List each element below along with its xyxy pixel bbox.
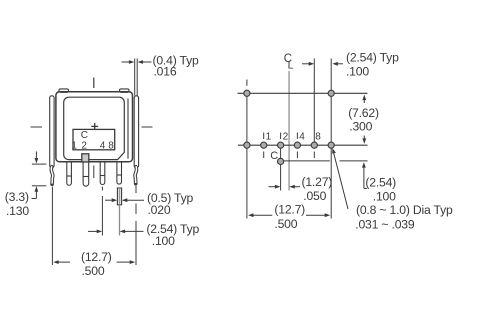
pin B	[67, 162, 72, 186]
svg-text:1: 1	[266, 132, 272, 143]
svg-text:.016: .016	[154, 64, 177, 78]
dim (0.5) right arrow	[122, 198, 144, 202]
pin F (wavy right)	[135, 167, 137, 184]
dim (12.7) right figure right arrow	[306, 213, 330, 217]
pin E	[117, 162, 122, 184]
svg-text:.500: .500	[82, 264, 105, 278]
svg-text:2: 2	[283, 132, 289, 143]
dim text (1.27) .050	[302, 175, 333, 203]
dim text (0.8 ~ 1.0) Dia Typ .031 ~ .039	[355, 203, 453, 231]
column line 1	[246, 80, 248, 219]
dia leader arrow	[332, 148, 348, 209]
dim (3.3) down arrow	[35, 152, 39, 164]
top-left mounting bump	[59, 89, 69, 92]
dim (7.62) down arrow	[362, 136, 366, 144]
svg-text:(12.7): (12.7)	[81, 250, 112, 264]
dim (12.7) left arrow	[53, 260, 70, 264]
right side rail	[134, 96, 138, 168]
plus centermark	[91, 123, 98, 130]
middle row pin I2	[278, 142, 284, 148]
pin labels 1 2 4 8	[266, 132, 322, 143]
svg-text:8: 8	[108, 140, 114, 151]
svg-text:.100: .100	[346, 65, 369, 79]
inner window with chamfered corner	[64, 97, 125, 159]
svg-text:(2.54): (2.54)	[365, 176, 396, 190]
dim (0.5) left arrow	[105, 198, 117, 202]
pin D extension dashes	[101, 187, 103, 236]
dim text (7.62) .300	[348, 106, 379, 133]
svg-text:4: 4	[100, 140, 106, 151]
dim (3.3) up arrow	[32, 186, 39, 198]
svg-text:(2.54) Typ: (2.54) Typ	[346, 51, 399, 65]
column 4 ticks	[296, 133, 298, 159]
dim (2.54) left arrow	[88, 230, 102, 234]
top-right mounting bump	[120, 89, 130, 92]
svg-text:(1.27): (1.27)	[302, 175, 333, 189]
svg-text:4: 4	[299, 132, 305, 143]
svg-text:(3.3): (3.3)	[5, 190, 29, 204]
svg-text:(0.8 ~ 1.0) Dia Typ: (0.8 ~ 1.0) Dia Typ	[356, 203, 453, 217]
dim (12.7) right arrow	[117, 260, 136, 264]
pin F core	[135, 166, 137, 183]
horizontal centerline dash right	[142, 126, 153, 128]
centerline symbol CL	[284, 53, 294, 71]
middle row pin I4	[294, 142, 300, 148]
dim text (12.7) .500 right figure	[274, 202, 305, 231]
svg-text:.300: .300	[349, 119, 372, 133]
top row pin right	[328, 90, 334, 96]
svg-text:.050: .050	[303, 189, 326, 203]
pin E extension line	[119, 205, 121, 236]
pin wire width extension lines (0.4)	[135, 59, 138, 96]
svg-text:L: L	[288, 59, 294, 71]
svg-text:.031 ~ .039: .031 ~ .039	[355, 217, 415, 231]
top row line	[238, 92, 368, 94]
svg-text:2: 2	[81, 140, 87, 151]
label C for common pin	[270, 150, 278, 162]
middle row pin 1	[244, 142, 250, 148]
svg-text:8: 8	[315, 132, 321, 143]
pin D	[100, 162, 105, 185]
svg-text:1: 1	[71, 140, 77, 151]
label box	[73, 129, 115, 149]
column 3 line (C pin column)	[280, 133, 282, 191]
pin A core	[51, 166, 53, 183]
label digits 1 2 4 8	[71, 140, 114, 151]
pin E lower cross-section	[117, 188, 121, 205]
dim text (2.54) Typ .100 top	[346, 51, 399, 79]
column 2 ticks	[263, 133, 265, 159]
centerline dash below body	[93, 166, 95, 179]
svg-text:(12.7): (12.7)	[274, 202, 305, 216]
dim (1.27) right arrow	[289, 185, 300, 189]
dim text (3.3) .130	[5, 190, 30, 218]
horizontal centerline dash left	[31, 126, 43, 128]
dim (2.54) top right arrow	[332, 62, 343, 66]
pin A (wavy left)	[51, 167, 53, 184]
vertical centerline tick above body	[93, 78, 95, 89]
center post	[82, 154, 89, 162]
left side rail	[50, 96, 54, 168]
C-row extension line	[284, 160, 368, 162]
label text C	[81, 130, 88, 141]
dim text (0.5) Typ .020	[147, 191, 193, 217]
dim (3.3) extension lines	[32, 164, 46, 186]
middle row line	[238, 144, 368, 146]
svg-text:.100: .100	[152, 234, 175, 248]
dim text (0.4) Typ .016	[153, 53, 199, 78]
package body outline	[56, 92, 133, 162]
dim (7.62) up arrow	[362, 95, 366, 103]
dim (2.54) right arrow	[120, 230, 144, 234]
svg-text:(7.62): (7.62)	[348, 106, 379, 120]
svg-text:.100: .100	[373, 189, 396, 203]
top row pin left	[244, 90, 250, 96]
column 6 line	[330, 59, 332, 219]
svg-text:.130: .130	[6, 204, 29, 218]
common pin C	[278, 158, 284, 164]
dim (2.54) lower up arrow	[362, 162, 367, 188]
svg-text:.020: .020	[148, 203, 171, 217]
pin E cross-section core	[119, 189, 121, 204]
dim (12.7) left extension	[51, 187, 53, 266]
dim (0.4) left arrow	[122, 60, 135, 64]
middle row pin I1	[261, 142, 267, 148]
middle row pin I8	[311, 142, 317, 148]
dim (2.54) top left arrow	[302, 62, 314, 66]
dim (0.4) right arrow	[138, 60, 152, 64]
svg-text:.500: .500	[274, 217, 297, 231]
column 5 line	[313, 59, 315, 159]
dim (12.7) right figure left arrow	[248, 213, 272, 217]
pin C (center, wide)	[83, 162, 89, 186]
middle row pin right	[328, 142, 334, 148]
dim text (2.54) .100 lower	[365, 176, 396, 204]
dim text (12.7) .500 left figure	[81, 250, 112, 278]
dim (12.7) right extension dashes	[135, 186, 137, 266]
dim text (2.54) Typ .100	[146, 222, 199, 248]
vertical package centerline	[288, 71, 290, 191]
inner wall line	[127, 99, 129, 159]
dim (1.27) left arrow	[269, 185, 281, 189]
